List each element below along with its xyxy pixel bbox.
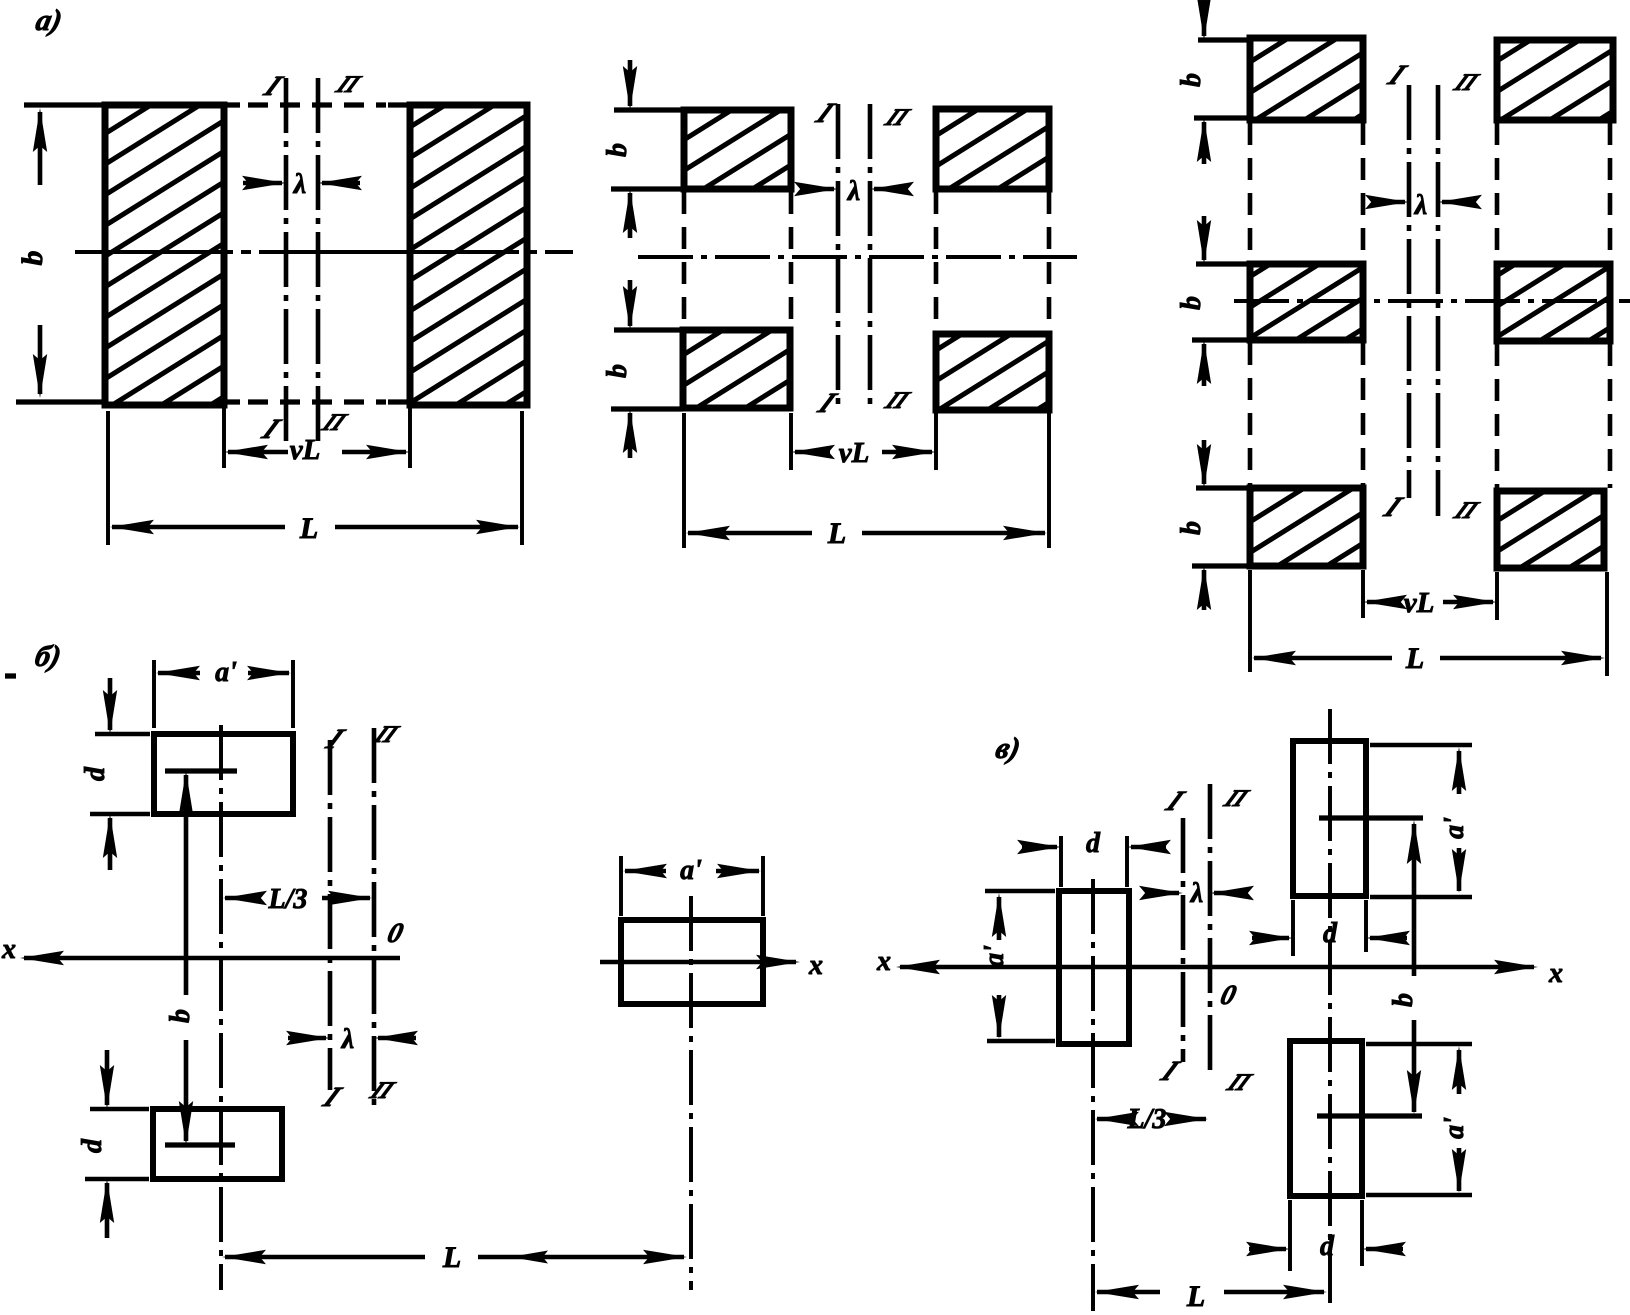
dimension vL (A1) xyxy=(224,405,410,468)
top extension line left xyxy=(24,102,105,107)
hatched rect A1-right xyxy=(410,105,527,405)
section line I (B) xyxy=(317,723,351,1112)
vertical dashed connectors (A3) xyxy=(1250,123,1610,488)
svg-text:x: x xyxy=(1548,958,1563,989)
svg-text:d: d xyxy=(1323,918,1338,949)
dimension lambda (A1) xyxy=(242,169,362,200)
svg-text:b: b xyxy=(1388,993,1419,1007)
svg-text:b: b xyxy=(1176,296,1207,310)
svg-text:b: b xyxy=(602,143,633,157)
svg-text:d: d xyxy=(1086,828,1101,859)
stray dash mark xyxy=(5,673,16,678)
dimension L (A1) xyxy=(108,411,522,545)
section line II (A3) xyxy=(1438,69,1484,524)
dimension d (V bottom-right) xyxy=(1246,1200,1406,1271)
dimension lambda (A3) xyxy=(1365,190,1482,221)
rect B-right xyxy=(621,920,763,1004)
figure b) caption xyxy=(32,639,64,673)
hatched square A2 top-left xyxy=(684,110,791,189)
dimension a-prime (V bottom-right) xyxy=(1366,1044,1472,1195)
svg-text:a': a' xyxy=(215,657,237,688)
svg-text:b: b xyxy=(165,1009,196,1023)
hatched square A2 bottom-left xyxy=(683,330,790,408)
dimension vL (A2) xyxy=(791,413,936,470)
b line with arrows (B) xyxy=(165,771,196,1145)
dimension b (A2 top) xyxy=(602,60,637,238)
svg-text:a': a' xyxy=(979,945,1010,967)
inner mid line V-top-right xyxy=(1319,815,1423,820)
dimension b (A2 bottom) xyxy=(602,280,637,458)
rect B-top xyxy=(154,734,293,814)
x axis left (B) xyxy=(1,934,400,965)
figure a) caption xyxy=(33,3,65,37)
hatched square A2 top-right xyxy=(936,109,1049,189)
dimension b (A1) xyxy=(16,108,49,398)
dimension d (V left) xyxy=(1017,828,1171,887)
dimension L/3 (V) xyxy=(1095,1104,1208,1135)
svg-text:d: d xyxy=(77,1138,108,1153)
svg-text:x: x xyxy=(808,950,823,981)
figure v) caption xyxy=(993,731,1024,765)
label 0 (B) xyxy=(384,918,406,948)
vertical dashed connectors (A2) xyxy=(684,192,1049,331)
svg-text:a': a' xyxy=(680,855,702,886)
inner mid line B-bottom xyxy=(165,1142,235,1147)
dimension L (B) xyxy=(222,1241,687,1274)
rect B-bottom xyxy=(153,1109,282,1179)
label 0 (V) xyxy=(1217,980,1239,1010)
svg-text:a': a' xyxy=(1439,817,1470,839)
section line II (A2) xyxy=(870,104,915,414)
svg-text:L/3: L/3 xyxy=(1127,1104,1167,1135)
dimension lambda (B) xyxy=(286,1024,418,1055)
svg-text:b: b xyxy=(1176,521,1207,535)
svg-text:d: d xyxy=(1320,1231,1335,1262)
svg-text:λ: λ xyxy=(341,1024,354,1055)
centerline V-right xyxy=(1328,709,1332,1311)
section line I (A3) xyxy=(1378,59,1413,522)
inner mid line B-top xyxy=(165,768,237,773)
svg-text:vL: vL xyxy=(290,434,321,466)
svg-text:vL: vL xyxy=(839,437,870,469)
dimension d (V top-right) xyxy=(1249,900,1410,956)
svg-text:x: x xyxy=(876,946,891,977)
svg-text:λ: λ xyxy=(1190,878,1203,909)
dimension a-prime (B top) xyxy=(154,657,293,728)
dimension lambda (A2) xyxy=(794,176,914,207)
section line I (V) xyxy=(1155,785,1191,1086)
svg-text:λ: λ xyxy=(1414,190,1427,221)
svg-text:x: x xyxy=(1,934,16,965)
hatched square A3 row3-left xyxy=(1250,488,1363,566)
svg-text:a': a' xyxy=(1439,1117,1470,1139)
x axis right (B) xyxy=(600,950,823,981)
svg-text:b: b xyxy=(602,364,633,378)
x axis (V) xyxy=(876,946,1563,989)
rect V-top-right xyxy=(1293,741,1366,896)
dimension d (B top rect) xyxy=(80,678,150,870)
horizontal centerline (A2) xyxy=(638,255,1077,259)
b line with arrows (V) xyxy=(1388,820,1421,1114)
section line I (A1) xyxy=(256,70,289,447)
section line I (A2) xyxy=(810,97,843,418)
bottom extension line left xyxy=(16,399,105,404)
dimension a-prime (V left) xyxy=(979,891,1055,1041)
dimension L (A2) xyxy=(684,413,1049,550)
inner mid line V-bottom-right xyxy=(1317,1113,1422,1118)
dimension b (A3 row2) xyxy=(1176,216,1211,386)
dimension vL (A3) xyxy=(1363,570,1497,620)
rect V-left xyxy=(1059,891,1129,1044)
hatched rect A1-left xyxy=(105,105,224,405)
horizontal centerline (A1) xyxy=(75,250,573,254)
section line II (V) xyxy=(1210,784,1257,1096)
svg-text:L: L xyxy=(1186,1280,1205,1313)
dimension lambda (V) xyxy=(1139,878,1254,909)
section line II (B) xyxy=(365,721,405,1105)
svg-text:L: L xyxy=(1405,642,1424,675)
hatched square A3 row1-left xyxy=(1250,38,1363,120)
dimension L/3 (B) xyxy=(223,884,372,915)
section line II (A1) xyxy=(317,71,367,447)
dimension a-prime (B right) xyxy=(621,855,763,916)
dimension L (A3) xyxy=(1250,570,1607,676)
hatched square A3 row2-right xyxy=(1497,264,1610,341)
svg-text:vL: vL xyxy=(1404,587,1435,619)
hatched square A3 row2-left xyxy=(1250,264,1363,340)
hatched square A3 row1-right xyxy=(1497,40,1613,120)
dimension d (B bottom rect) xyxy=(77,1050,149,1238)
horizontal centerline (A3) xyxy=(1234,299,1630,303)
svg-text:L: L xyxy=(827,517,846,550)
dimension L (V) xyxy=(1095,1280,1327,1313)
svg-text:b: b xyxy=(16,251,49,266)
dimension b (A3 row3) xyxy=(1176,440,1211,610)
svg-text:L/3: L/3 xyxy=(268,884,308,915)
bottom dashed line between rects xyxy=(224,399,410,404)
extension lines left (A2) xyxy=(611,110,684,409)
column centerline (B) xyxy=(219,725,223,1290)
dimension a-prime (V top-right) xyxy=(1370,745,1472,897)
centerline V-left xyxy=(1091,879,1095,1311)
hatched square A2 bottom-right xyxy=(936,334,1049,410)
rect V-bottom-right xyxy=(1290,1041,1362,1196)
top dashed line between rects xyxy=(224,102,410,107)
hatched square A3 row3-right xyxy=(1497,491,1604,568)
svg-text:λ: λ xyxy=(847,176,860,207)
svg-text:L: L xyxy=(299,512,318,545)
dimension b (A3 row1) xyxy=(1176,0,1211,164)
extension lines left (A3) xyxy=(1192,40,1250,566)
svg-text:L: L xyxy=(442,1241,461,1274)
svg-text:b: b xyxy=(1176,73,1207,87)
centerline B-right rect xyxy=(689,896,693,1290)
svg-text:λ: λ xyxy=(293,169,306,200)
svg-text:d: d xyxy=(80,766,111,781)
